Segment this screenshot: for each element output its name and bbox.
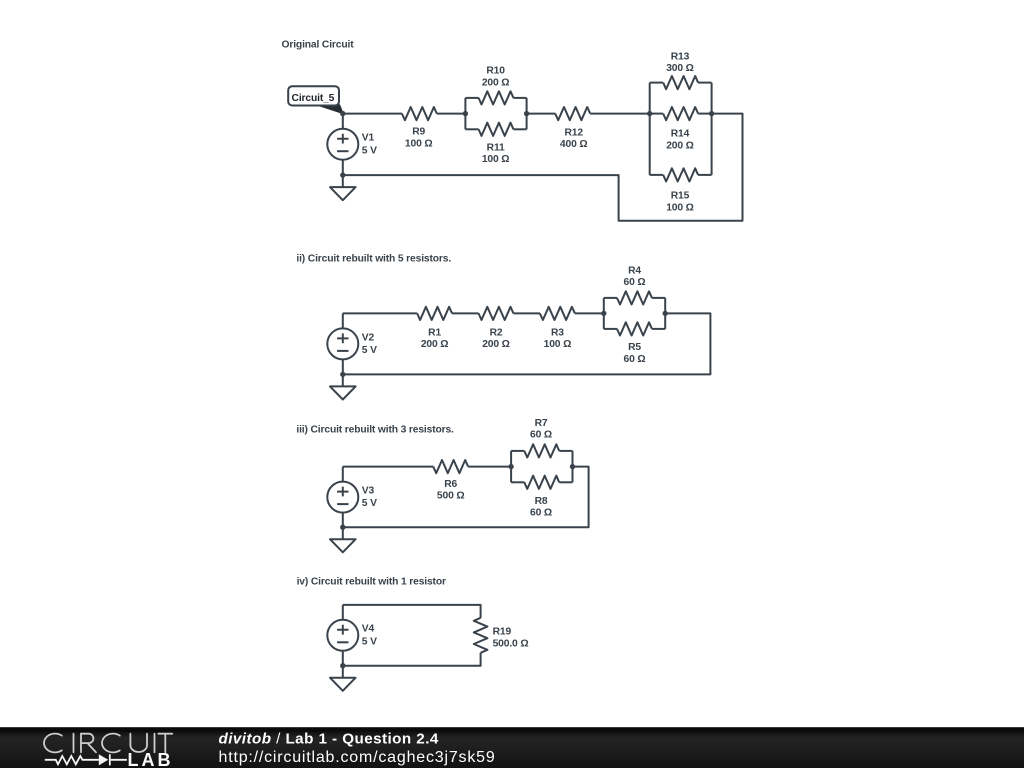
svg-text:5 V: 5 V (362, 498, 377, 509)
svg-text:R14: R14 (671, 129, 690, 140)
svg-text:200 Ω: 200 Ω (482, 339, 510, 350)
svg-text:200 Ω: 200 Ω (482, 77, 510, 88)
svg-text:R4: R4 (628, 265, 641, 276)
svg-text:divitob / Lab 1 - Question 2.4: divitob / Lab 1 - Question 2.4 (219, 730, 439, 747)
svg-text:V1: V1 (362, 133, 375, 144)
svg-text:R12: R12 (564, 127, 583, 138)
svg-text:V3: V3 (362, 486, 375, 497)
svg-text:R3: R3 (551, 327, 564, 338)
svg-text:R6: R6 (444, 479, 457, 490)
svg-text:5 V: 5 V (362, 145, 377, 156)
svg-text:100 Ω: 100 Ω (666, 202, 694, 213)
svg-text:5 V: 5 V (362, 345, 377, 356)
svg-text:60 Ω: 60 Ω (624, 277, 646, 288)
svg-text:Circuit_5: Circuit_5 (292, 93, 335, 104)
svg-text:5 V: 5 V (362, 636, 377, 647)
svg-text:500.0 Ω: 500.0 Ω (493, 638, 529, 649)
svg-text:200 Ω: 200 Ω (666, 140, 694, 151)
svg-text:R13: R13 (671, 51, 690, 62)
svg-text:R19: R19 (493, 627, 512, 638)
svg-text:R7: R7 (535, 418, 548, 429)
svg-text:60 Ω: 60 Ω (530, 430, 552, 441)
svg-text:Original Circuit: Original Circuit (282, 40, 355, 51)
svg-text:300 Ω: 300 Ω (666, 63, 694, 74)
svg-text:500 Ω: 500 Ω (437, 491, 465, 502)
svg-text:LAB: LAB (128, 750, 174, 768)
svg-text:R9: R9 (412, 127, 425, 138)
svg-text:R10: R10 (486, 66, 505, 77)
svg-text:100 Ω: 100 Ω (405, 139, 433, 150)
svg-text:R11: R11 (487, 142, 505, 153)
svg-text:100 Ω: 100 Ω (544, 339, 572, 350)
svg-text:ii) Circuit rebuilt with 5 res: ii) Circuit rebuilt with 5 resistors. (296, 254, 451, 265)
svg-text:R8: R8 (535, 496, 548, 507)
svg-text:V2: V2 (362, 332, 375, 343)
svg-text:60 Ω: 60 Ω (624, 354, 646, 365)
svg-text:200 Ω: 200 Ω (421, 339, 449, 350)
svg-text:V4: V4 (362, 624, 375, 635)
svg-text:R5: R5 (628, 342, 641, 353)
svg-text:http://circuitlab.com/caghec3j: http://circuitlab.com/caghec3j7sk59 (219, 749, 496, 766)
svg-text:400 Ω: 400 Ω (560, 139, 588, 150)
svg-text:R15: R15 (671, 191, 690, 202)
svg-text:100 Ω: 100 Ω (482, 154, 510, 165)
svg-text:60 Ω: 60 Ω (530, 508, 552, 519)
svg-text:R2: R2 (490, 327, 503, 338)
svg-text:iv) Circuit rebuilt with 1 res: iv) Circuit rebuilt with 1 resistor (297, 577, 446, 588)
svg-text:iii) Circuit rebuilt with 3 re: iii) Circuit rebuilt with 3 resistors. (296, 424, 454, 435)
svg-text:R1: R1 (428, 327, 441, 338)
